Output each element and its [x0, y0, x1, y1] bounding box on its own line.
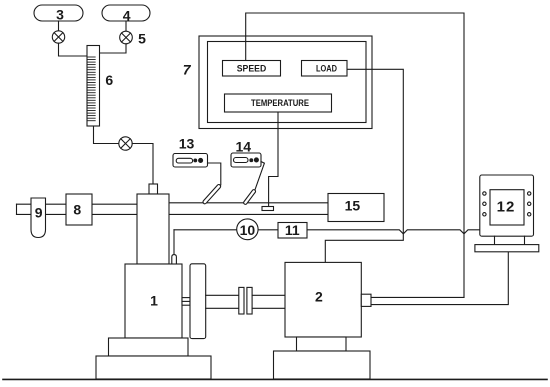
- crankshaft stub: [182, 298, 190, 306]
- gas cylinder 4: [102, 5, 150, 21]
- computer monitor 12: [480, 175, 534, 236]
- svg-text:4: 4: [123, 7, 131, 23]
- wire meter 13 to probe: [208, 163, 221, 185]
- stem cylinder 3: [58, 21, 60, 31]
- burette 6: [87, 46, 100, 127]
- engine base: [96, 356, 211, 379]
- meter box 11: [278, 223, 307, 239]
- shaft coupling to dynamometer: [252, 294, 285, 296]
- valve under cylinder 3: [52, 31, 64, 43]
- svg-text:SPEED: SPEED: [237, 64, 267, 75]
- dynamometer 2: [285, 262, 361, 337]
- main horizontal signal wire with line hops: [174, 230, 480, 234]
- monitor stand: [494, 236, 496, 244]
- svg-text:3: 3: [56, 7, 64, 23]
- engine mount tier: [109, 338, 189, 356]
- svg-text:15: 15: [345, 198, 361, 214]
- air tube 9: [31, 198, 46, 238]
- flow meter circle 10: [237, 219, 258, 240]
- svg-text:14: 14: [236, 139, 252, 155]
- coupling: [239, 287, 244, 314]
- svg-text:10: 10: [240, 222, 256, 238]
- dynamometer right stub: [361, 294, 371, 306]
- svg-text:12: 12: [497, 198, 516, 215]
- valve 5: [120, 31, 133, 44]
- probe of meter 13: [202, 184, 221, 205]
- silencer box 15: [328, 194, 384, 222]
- dynamometer base: [274, 351, 371, 379]
- monitor dots: [483, 192, 531, 216]
- svg-text:5: 5: [138, 30, 146, 46]
- fuel line to engine inlet: [132, 144, 153, 185]
- wire meter 14 to probe: [255, 162, 265, 191]
- stem cylinder 4: [125, 21, 127, 31]
- wire down to speed sensor: [173, 230, 175, 255]
- burette graduations: [88, 57, 96, 121]
- control panel 7 outer: [199, 36, 372, 129]
- svg-text:13: 13: [179, 136, 195, 152]
- wire from speed display up and across top: [246, 13, 464, 297]
- fuel line valve3 to burette: [59, 43, 88, 56]
- probe of meter 14: [243, 189, 256, 205]
- fuel line burette to fuel valve: [94, 126, 119, 144]
- intake pipe: [17, 203, 138, 205]
- temperature wire: [269, 112, 278, 207]
- svg-text:7: 7: [183, 61, 192, 77]
- thermocouple connector on exhaust: [262, 207, 274, 211]
- temperature display box: [225, 94, 332, 112]
- svg-text:LOAD: LOAD: [316, 64, 337, 75]
- wire dynamometer stub to vertical: [371, 296, 464, 298]
- dynamometer legs: [297, 337, 347, 351]
- carburettor body: [137, 194, 169, 264]
- gas cylinder 3: [34, 5, 83, 21]
- fuel valve: [119, 137, 132, 150]
- fuel inlet fitting: [149, 184, 158, 194]
- shaft flywheel to coupling: [206, 294, 239, 296]
- control panel 7 inner: [208, 42, 367, 123]
- exhaust pipe: [169, 202, 328, 204]
- sensor meter 14: [231, 153, 261, 167]
- svg-text:TEMPERATURE: TEMPERATURE: [251, 98, 309, 109]
- engine block 1: [125, 264, 182, 338]
- screen: [490, 190, 524, 225]
- svg-text:6: 6: [105, 72, 113, 88]
- svg-text:9: 9: [35, 205, 43, 221]
- monitor base: [475, 245, 539, 252]
- wire from monitor base to dynamometer: [371, 252, 508, 305]
- wire from load display right and down: [325, 69, 403, 262]
- load display box: [302, 61, 348, 77]
- svg-text:2: 2: [315, 289, 323, 305]
- speed sensor on engine: [172, 255, 177, 264]
- svg-text:1: 1: [150, 293, 158, 309]
- air filter 8: [66, 194, 92, 225]
- speed display box: [223, 61, 281, 77]
- ground line: [3, 378, 547, 380]
- svg-text:11: 11: [285, 222, 300, 238]
- sensor meter 13: [173, 154, 208, 168]
- flywheel: [190, 264, 206, 339]
- svg-text:8: 8: [73, 202, 81, 218]
- fuel line valve5 to burette: [100, 44, 127, 53]
